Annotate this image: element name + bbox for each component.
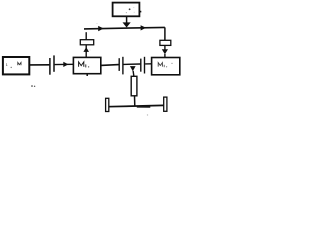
wire: bottom output line xyxy=(107,105,163,106)
wire: arrow to M1 top xyxy=(85,51,87,57)
capacitor C3 left plate xyxy=(140,59,142,72)
wire: C2 to C3 through IF node xyxy=(124,63,141,65)
capacitor C2 left plate xyxy=(118,58,120,71)
wire: top box down to rail xyxy=(126,16,128,23)
arrowhead on rail (right segment, pointing right) xyxy=(141,25,147,30)
wire: bottom line thick segment xyxy=(137,106,151,108)
arrowhead down into M2 xyxy=(162,49,168,54)
wire: C3 to M2 xyxy=(145,63,152,65)
arrowhead down at IF node xyxy=(130,66,136,71)
wire: node to R1 xyxy=(132,71,135,77)
arrowhead into M1 gate xyxy=(63,62,68,67)
pin stub below M1 xyxy=(86,74,88,76)
block V1 (left input source box) xyxy=(3,57,29,74)
wire: rail down to left filter box xyxy=(85,32,87,40)
pin tick on top box right edge xyxy=(140,11,142,13)
terminal bar right xyxy=(164,97,167,111)
arrowhead up into left filter xyxy=(83,47,89,52)
block L1 (left small filter rect) xyxy=(80,40,93,45)
wire: arrow to M2 top xyxy=(164,54,166,58)
wire: top rail xyxy=(84,27,165,29)
capacitor C2 right plate xyxy=(122,57,124,75)
wire: right filter to arrow xyxy=(164,45,166,49)
block M1 (transistor box) xyxy=(73,57,100,73)
wire: M1 drain to C2 xyxy=(101,64,119,67)
wire: rail down to right filter box xyxy=(164,27,166,40)
arrowhead on rail (left segment, pointing right) xyxy=(98,26,104,31)
block L2 (right small filter rect) xyxy=(160,40,171,45)
capacitor C1 right plate xyxy=(53,55,55,71)
wire: C1 to M1 xyxy=(55,63,74,65)
terminal bar left xyxy=(106,98,109,111)
block U3 (top oscillator box) xyxy=(113,3,140,17)
arrowhead down onto rail xyxy=(123,22,131,27)
wire: left filter to arrow xyxy=(85,45,87,49)
capacitor C1 left plate xyxy=(49,58,51,75)
resistor R1 (vertical box) xyxy=(131,76,137,96)
wire: R1 to bottom line xyxy=(134,96,136,107)
speck noise dots xyxy=(31,23,148,116)
wire: source to C1 xyxy=(29,64,49,66)
block M2 (transistor box) xyxy=(152,58,180,75)
capacitor C3 right plate xyxy=(144,57,146,74)
